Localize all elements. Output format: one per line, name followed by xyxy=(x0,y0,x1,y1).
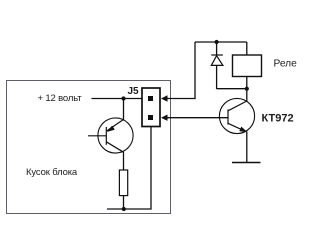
wire relay bottom lead xyxy=(246,77,248,89)
resistor R1 xyxy=(119,170,127,196)
wire Q2 emitter vertical xyxy=(246,132,248,163)
svg-text:+ 12 вольт: + 12 вольт xyxy=(38,93,83,104)
wire relay top lead xyxy=(246,42,248,55)
wire resistor bottom lead xyxy=(123,196,125,209)
svg-text:Реле: Реле xyxy=(274,59,298,70)
transistor Q1 (PNP) xyxy=(88,118,133,153)
svg-text:Кусок блока: Кусок блока xyxy=(26,167,78,178)
transistor Q2 (NPN) KT972 xyxy=(219,98,254,133)
wire +12V rail to connector J5 xyxy=(92,98,143,100)
ground bar xyxy=(232,162,261,164)
node junction dot on +12V rail xyxy=(121,96,125,100)
wire arrow into pin 1 from relay circuit xyxy=(165,42,195,99)
wire Q1 collector to resistor xyxy=(123,152,125,170)
node junction dot relay bottom xyxy=(245,87,249,91)
wire diode anode to relay bottom xyxy=(217,88,247,90)
node junction dot bottom wire xyxy=(122,207,126,211)
diode D1 anode lead xyxy=(216,65,218,89)
wire Q2 collector vertical xyxy=(246,89,248,102)
svg-text:J5: J5 xyxy=(128,86,140,97)
diode D1 xyxy=(211,55,223,65)
relay K1 coil box xyxy=(233,55,262,77)
wire Q2 base from pin 2 arrow xyxy=(165,117,228,119)
connector J5 body xyxy=(142,88,160,127)
wire top rail to relay xyxy=(195,41,247,43)
node junction dot top rail xyxy=(215,40,219,44)
svg-text:КТ972: КТ972 xyxy=(262,113,294,125)
block outline "Кусок блока" box xyxy=(7,81,171,214)
connector J5 pin 1 xyxy=(148,96,153,101)
wire bottom return to J5 pin 2 xyxy=(107,127,151,210)
diode D1 cathode lead xyxy=(216,42,218,55)
connector J5 pin 2 xyxy=(148,115,153,120)
wire Q1 emitter vertical xyxy=(123,99,125,121)
